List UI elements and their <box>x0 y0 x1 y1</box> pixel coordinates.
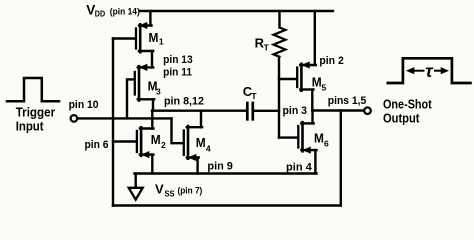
svg-text:M: M <box>151 132 161 147</box>
label One-Shot Output <box>383 96 432 125</box>
svg-text:pins 1,5: pins 1,5 <box>328 95 367 107</box>
wire M2 drain riser <box>151 111 153 129</box>
label VSS (pin 7) <box>155 182 202 199</box>
svg-text:DD: DD <box>95 9 105 19</box>
svg-text:pin 11: pin 11 <box>163 66 192 78</box>
wire pin10 drop to M4 gate <box>172 118 184 143</box>
wire M5 drain riser <box>311 90 313 111</box>
label M1 <box>149 30 164 47</box>
svg-text:M: M <box>149 30 159 45</box>
wire feedback bottom line <box>113 204 341 206</box>
transistor M2 <box>137 127 154 158</box>
svg-text:6: 6 <box>324 139 329 149</box>
transistor M5 <box>297 61 316 90</box>
wire M6 gate lead <box>279 136 298 138</box>
svg-text:M: M <box>312 74 322 89</box>
label CT <box>243 84 258 101</box>
label M5 <box>312 74 327 92</box>
wire output line pins 1,5 <box>312 109 364 111</box>
svg-text:V: V <box>155 182 164 197</box>
label M2 <box>151 132 166 150</box>
wire M3 gate lead and drop to trigger line <box>127 79 134 118</box>
svg-text:M: M <box>314 130 324 145</box>
trigger input pulse waveform <box>7 78 59 101</box>
svg-text:T: T <box>251 91 257 101</box>
label M6 <box>314 130 329 148</box>
tau width arrow left <box>406 67 424 74</box>
svg-text:pin 10: pin 10 <box>69 99 99 111</box>
wire trigger input line pin 10 <box>77 117 171 119</box>
svg-text:pin 2: pin 2 <box>319 55 343 67</box>
svg-text:T: T <box>264 42 270 52</box>
svg-text:pin 8,12: pin 8,12 <box>164 96 204 108</box>
label M3 <box>148 79 161 97</box>
label M4 <box>196 135 211 153</box>
capacitor CT <box>247 103 279 119</box>
svg-text:3: 3 <box>156 87 161 97</box>
wire VDD rail <box>140 10 333 12</box>
svg-text:4: 4 <box>206 143 211 153</box>
wire M5 source riser pin 2 <box>314 11 316 65</box>
wire M4 drain riser <box>200 111 202 128</box>
svg-text:1: 1 <box>159 37 164 47</box>
svg-text:(pin 7): (pin 7) <box>178 185 203 195</box>
transistor M1 <box>136 22 153 52</box>
transistor M3 <box>135 64 154 101</box>
label RT <box>255 36 270 53</box>
wire M1 gate lead <box>113 37 135 39</box>
svg-text:Input: Input <box>16 118 44 133</box>
svg-text:Output: Output <box>383 110 420 125</box>
tau width arrow right <box>435 67 449 74</box>
wire feedback right vertical <box>340 111 342 206</box>
svg-text:pin 4: pin 4 <box>286 161 313 173</box>
label Trigger Input <box>16 104 56 133</box>
wire pin 3 vertical node <box>278 57 280 138</box>
wire M1 source riser <box>149 11 151 26</box>
node pin 10 input terminal <box>71 115 78 122</box>
ground VSS <box>129 174 143 200</box>
svg-text:pin 9: pin 9 <box>207 161 233 173</box>
transistor M6 <box>298 122 316 154</box>
svg-text:M: M <box>196 135 206 150</box>
wire M3 drain riser <box>152 99 154 110</box>
transistor M4 <box>184 126 202 161</box>
wire M6 source riser <box>314 150 316 173</box>
wire M6 drain riser <box>311 111 313 124</box>
wire feedback left vertical (pin 6 net) <box>112 39 114 206</box>
wire VSS source line pin9-pin4 <box>135 172 317 174</box>
svg-text:One-Shot: One-Shot <box>383 96 432 111</box>
resistor RT <box>274 11 286 57</box>
wire M2 gate lead <box>113 140 136 142</box>
wire node pin 8,12 line to CT <box>152 109 246 111</box>
svg-text:(pin 14): (pin 14) <box>110 6 140 16</box>
wire M1 drain to M3 source <box>151 51 153 67</box>
one-shot output pulse waveform <box>388 58 471 83</box>
wire M2 source riser <box>151 155 153 174</box>
svg-text:2: 2 <box>161 140 166 150</box>
wire M4 source riser <box>196 158 198 174</box>
svg-text:Trigger: Trigger <box>16 104 56 119</box>
node output terminal <box>364 107 371 114</box>
svg-text:5: 5 <box>322 82 327 92</box>
svg-text:SS: SS <box>165 188 175 198</box>
svg-text:pin 13: pin 13 <box>163 54 193 66</box>
label VDD (pin 14) <box>86 2 140 18</box>
wire M5 gate lead <box>279 78 297 80</box>
svg-text:pin 3: pin 3 <box>283 105 308 117</box>
svg-text:pin 6: pin 6 <box>85 139 109 151</box>
svg-text:τ: τ <box>425 61 434 81</box>
